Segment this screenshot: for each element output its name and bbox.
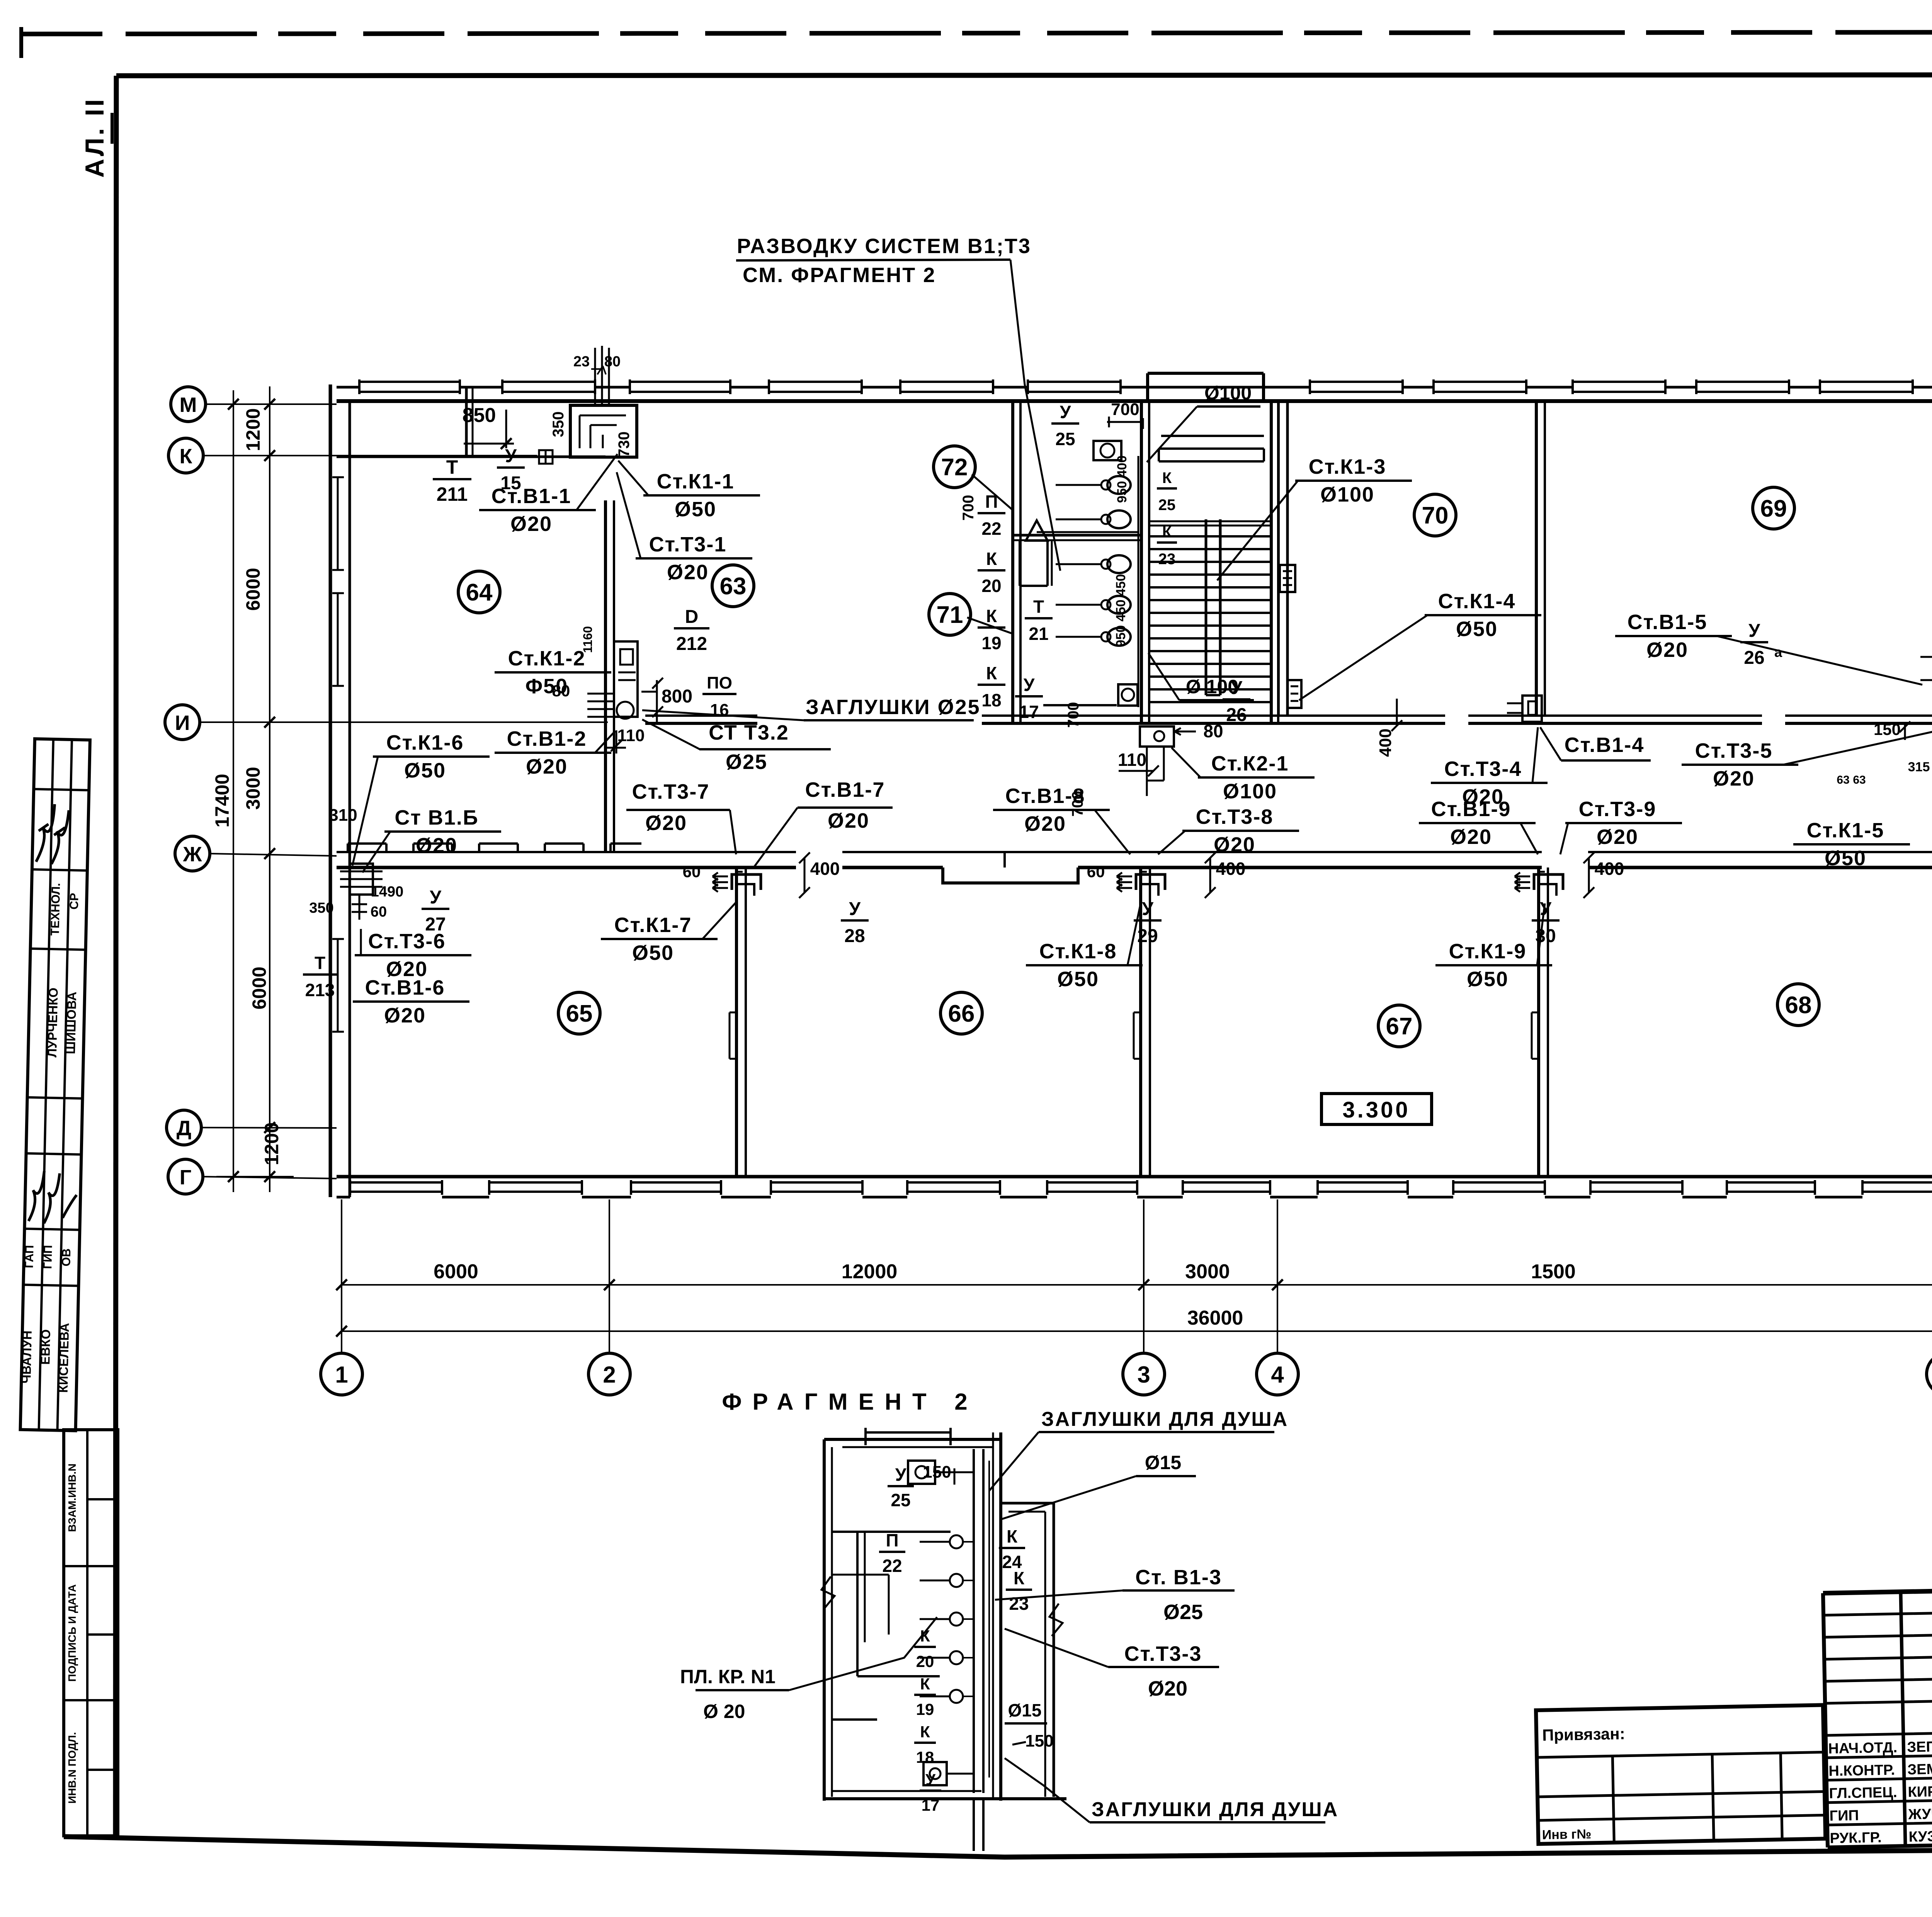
svg-text:Ø25: Ø25: [726, 750, 767, 774]
svg-text:Ø20: Ø20: [510, 512, 552, 536]
label Ст.К1-5: [1793, 819, 1910, 870]
fragment fraction У/25: [888, 1465, 914, 1510]
svg-text:Ø50: Ø50: [632, 941, 674, 964]
label Ст.К1-7: [601, 902, 736, 964]
svg-text:Ø50: Ø50: [1456, 617, 1498, 641]
svg-text:ЗАГЛУШКИ Ø25: ЗАГЛУШКИ Ø25: [806, 696, 981, 719]
svg-text:Ø20: Ø20: [526, 755, 568, 778]
plumbing node partition 64-63: [587, 641, 657, 719]
svg-text:4: 4: [1271, 1362, 1284, 1388]
toilet cabin: [1020, 541, 1052, 586]
svg-text:НАЧ.ОТД.: НАЧ.ОТД.: [1828, 1740, 1897, 1757]
svg-text:700: 700: [1065, 702, 1082, 728]
svg-text:950 450 450: 950 450 450: [1114, 574, 1128, 647]
svg-text:ЛУРЧЕНКО: ЛУРЧЕНКО: [45, 987, 61, 1057]
fragment label Ø15 bottom: [1005, 1700, 1054, 1750]
lower stamp strip: [64, 1430, 118, 1836]
svg-text:67: 67: [1386, 1013, 1413, 1040]
svg-text:Т: Т: [1033, 597, 1044, 617]
stamp signature squiggles upper: [36, 804, 69, 864]
dims near left node: [309, 884, 403, 920]
partition rooms 70-69: [1536, 402, 1545, 716]
fragment label Ø15 top: [1001, 1452, 1196, 1519]
partition rooms 66-67: [1134, 867, 1150, 1177]
svg-text:Ø25: Ø25: [1163, 1601, 1203, 1624]
fragment fraction К/20: [914, 1627, 936, 1670]
toilet partition 72-71: [1013, 535, 1141, 540]
fragment label Пл.кр.N1: [680, 1617, 937, 1722]
svg-text:400: 400: [1595, 859, 1624, 879]
svg-text:Ø20: Ø20: [1148, 1677, 1187, 1700]
label Ст.К1-1: [618, 461, 760, 521]
axis circle Д left: [167, 1110, 201, 1145]
svg-text:ГАП: ГАП: [22, 1245, 36, 1269]
toilet block left wall: [1013, 402, 1020, 723]
svg-text:25: 25: [1055, 429, 1075, 449]
svg-text:22: 22: [981, 519, 1001, 539]
svg-text:У: У: [505, 446, 517, 466]
label Ст.Т3-4: [1431, 727, 1548, 808]
svg-text:Ст.В1-4: Ст.В1-4: [1565, 733, 1645, 757]
svg-text:26: 26: [1226, 705, 1247, 725]
label Ст.В1-2: [495, 727, 615, 778]
svg-text:Ст.К1-5: Ст.К1-5: [1807, 819, 1884, 842]
svg-text:20: 20: [916, 1652, 934, 1670]
title block left grid: [1823, 1579, 1932, 1847]
svg-text:У: У: [1540, 899, 1552, 919]
svg-text:ПЛ. КР. N1: ПЛ. КР. N1: [680, 1666, 776, 1687]
svg-text:110: 110: [617, 726, 645, 745]
label Ст.В1-6: [353, 976, 469, 1027]
svg-text:У: У: [1060, 402, 1071, 422]
fraction Т/213: [303, 953, 337, 1000]
svg-text:150: 150: [1874, 720, 1901, 738]
paper top edge dashed line: [21, 27, 1932, 58]
svg-text:18: 18: [981, 690, 1001, 710]
svg-text:Ø20: Ø20: [1214, 833, 1255, 856]
svg-text:а: а: [1774, 644, 1782, 660]
svg-text:К: К: [920, 1675, 930, 1693]
svg-text:Т: Т: [446, 456, 458, 478]
fragment outer walls: [824, 1428, 1066, 1801]
svg-text:950 400: 950 400: [1115, 456, 1129, 503]
fraction К/23: [1157, 524, 1177, 568]
label Ст.К1-9: [1435, 903, 1552, 991]
stamp label ИНВ.N ПОДЛ.: [66, 1732, 78, 1803]
svg-text:6000: 6000: [434, 1260, 478, 1283]
svg-text:К: К: [920, 1723, 930, 1741]
left outer wall: [330, 384, 350, 1197]
svg-text:Ø20: Ø20: [1597, 825, 1638, 849]
svg-text:Ст.Т3-4: Ст.Т3-4: [1444, 757, 1522, 781]
svg-text:730: 730: [616, 432, 633, 458]
svg-text:Ø50: Ø50: [1825, 847, 1866, 870]
svg-text:110: 110: [1118, 750, 1146, 770]
svg-text:ПОДПИСЬ И ДАТА: ПОДПИСЬ И ДАТА: [66, 1584, 78, 1682]
svg-text:Ст.Т3-9: Ст.Т3-9: [1579, 798, 1656, 821]
stamp label СР: [67, 893, 81, 910]
Ж wall niches under room 64: [348, 844, 641, 852]
room circle 65: [558, 992, 600, 1034]
svg-text:400: 400: [810, 859, 840, 879]
axis line И thin: [207, 721, 608, 723]
partition rooms 67-68: [1532, 867, 1548, 1177]
svg-text:Ст.В1-5: Ст.В1-5: [1628, 611, 1708, 634]
svg-text:69: 69: [1760, 495, 1787, 522]
partition rooms 65-66: [730, 867, 746, 1177]
label Ст.Т3-9: [1560, 798, 1682, 854]
fragment fraction К/19: [914, 1675, 936, 1718]
svg-text:150: 150: [1025, 1732, 1053, 1750]
axis circle И left: [165, 705, 200, 740]
fraction У/15: [497, 446, 525, 493]
svg-text:КИСЕЛЕВА: КИСЕЛЕВА: [56, 1323, 72, 1393]
stamp label ОВ: [59, 1248, 73, 1266]
staircase right wall: [1271, 402, 1278, 723]
svg-text:Ø20: Ø20: [1462, 785, 1504, 808]
label Ст.В1-4: [1540, 727, 1651, 760]
plumbing node at 65-66: [713, 872, 761, 896]
svg-text:150: 150: [923, 1463, 951, 1482]
room circle 68: [1777, 984, 1819, 1026]
svg-text:60: 60: [683, 862, 701, 881]
svg-text:Ст.К1-7: Ст.К1-7: [614, 913, 692, 937]
left dimension chains: [216, 386, 294, 1192]
svg-text:ЧВАЛУН: ЧВАЛУН: [19, 1330, 34, 1384]
svg-text:36000: 36000: [1187, 1307, 1243, 1329]
dim 80 arrow: [1175, 721, 1223, 741]
svg-text:63: 63: [720, 573, 747, 600]
sheet label АЛ. II rotated top-left: [80, 97, 112, 178]
svg-text:16: 16: [710, 701, 729, 720]
axis circle 5 bottom: [1927, 1353, 1932, 1395]
svg-text:ОВ: ОВ: [59, 1248, 73, 1266]
svg-text:Ø20: Ø20: [828, 809, 869, 832]
svg-text:ЗАГЛУШКИ ДЛЯ ДУША: ЗАГЛУШКИ ДЛЯ ДУША: [1092, 1798, 1338, 1821]
fragment fraction К/23: [1006, 1568, 1032, 1614]
svg-text:У: У: [1142, 899, 1154, 919]
svg-text:ПО: ПО: [707, 674, 732, 692]
svg-text:Ст.Т3-6: Ст.Т3-6: [368, 930, 446, 953]
svg-text:19: 19: [981, 633, 1001, 653]
label Ст.К2-1: [1172, 748, 1315, 803]
fraction У/29: [1134, 899, 1162, 946]
fraction К/18: [978, 663, 1005, 710]
svg-text:Ø50: Ø50: [1057, 968, 1099, 991]
fraction У/17 wc: [1015, 675, 1043, 722]
svg-text:23: 23: [573, 354, 590, 370]
dim 400 rotated: [1376, 699, 1402, 757]
room 71 leader: [967, 617, 1013, 634]
svg-text:15: 15: [500, 473, 521, 493]
svg-text:18: 18: [916, 1748, 934, 1766]
toilet fixtures: [1026, 441, 1138, 707]
svg-text:211: 211: [437, 483, 468, 505]
fraction Т/211: [433, 456, 471, 505]
svg-text:3.300: 3.300: [1342, 1097, 1410, 1123]
svg-text:ИНВ.N ПОДЛ.: ИНВ.N ПОДЛ.: [66, 1732, 78, 1803]
corridor wall at axis Ж with recess: [337, 852, 1932, 883]
svg-text:Ст.Т3-3: Ст.Т3-3: [1124, 1642, 1202, 1665]
plumbing node left wall: [340, 864, 383, 920]
dim 110: [607, 726, 645, 754]
stamp label ВЗАМ.ИНВ.N: [66, 1463, 78, 1532]
room circle 69: [1753, 487, 1794, 529]
label СТ Т3.2: [642, 720, 831, 774]
svg-text:КИРНАЛОВА: КИРНАЛОВА: [1908, 1783, 1932, 1800]
bottom outer wall with windows: [337, 1177, 1932, 1197]
svg-text:80: 80: [604, 354, 621, 370]
svg-text:Ст В1.Б: Ст В1.Б: [395, 806, 478, 829]
label Заглушки Ø25: [642, 696, 981, 720]
svg-text:Ø100: Ø100: [1320, 483, 1374, 506]
dim 110 k2: [1118, 750, 1159, 776]
label Ст.Т3-6: [355, 929, 471, 981]
svg-text:D: D: [685, 607, 699, 627]
svg-text:ФРАГМЕНТ 2: ФРАГМЕНТ 2: [722, 1389, 978, 1415]
svg-text:Привязан:: Привязан:: [1542, 1725, 1625, 1744]
fragment fraction К/24: [999, 1526, 1025, 1572]
svg-text:Ø20: Ø20: [384, 1004, 426, 1027]
label Ст.К1-8: [1026, 903, 1143, 991]
label Ст В1.6: [362, 806, 501, 873]
left design stamp strip: [18, 739, 118, 1836]
svg-text:Г: Г: [180, 1166, 192, 1189]
inv number label: [1542, 1827, 1592, 1842]
svg-text:Ст.Т3-5: Ст.Т3-5: [1695, 739, 1773, 762]
svg-text:Ст.К1-9: Ст.К1-9: [1449, 940, 1527, 963]
svg-text:К: К: [1162, 469, 1172, 486]
level mark 3.300: [1321, 1094, 1432, 1124]
fraction ПО/16: [702, 674, 736, 720]
svg-text:Ст.К2-1: Ст.К2-1: [1211, 752, 1289, 775]
svg-text:Ст.Т3-1: Ст.Т3-1: [649, 533, 727, 556]
node В1-4 at 70-69: [1507, 696, 1542, 722]
stamp label ПОДПИСЬ И ДАТА: [66, 1584, 78, 1682]
fraction У/26а: [1740, 621, 1782, 668]
room circle 72: [934, 446, 975, 488]
svg-text:Ст.К1-6: Ст.К1-6: [386, 731, 464, 754]
label Ст.К1-4: [1299, 590, 1541, 700]
svg-text:Ж: Ж: [183, 843, 202, 866]
stamp label ГИП: [41, 1245, 54, 1269]
svg-text:Ø 100: Ø 100: [1186, 676, 1238, 697]
svg-text:Ст.К1-4: Ст.К1-4: [1438, 590, 1516, 613]
svg-text:РУК.ГР.: РУК.ГР.: [1830, 1829, 1882, 1846]
svg-text:700: 700: [960, 495, 977, 521]
vent symbol: [539, 450, 553, 464]
fraction К/20: [978, 549, 1005, 596]
svg-text:71: 71: [937, 602, 963, 628]
svg-text:212: 212: [676, 634, 707, 654]
room circle 64: [458, 571, 500, 613]
svg-text:Ø20: Ø20: [1450, 825, 1492, 849]
svg-text:60: 60: [1087, 862, 1105, 881]
dim 800: [652, 678, 692, 722]
label Ø100 top: [1147, 382, 1260, 462]
svg-text:3000: 3000: [1185, 1260, 1230, 1283]
fragment label Ст.В1-3: [995, 1566, 1235, 1624]
svg-text:Ст.В1-2: Ст.В1-2: [507, 727, 587, 750]
svg-text:350: 350: [550, 412, 567, 437]
axis circle 4 bottom: [1257, 1353, 1298, 1395]
svg-text:28: 28: [844, 926, 865, 946]
svg-text:ЖУРАВЛЕВА: ЖУРАВЛЕВА: [1908, 1805, 1932, 1823]
room circle 67: [1378, 1005, 1420, 1047]
fragment wc fixtures: [920, 1535, 974, 1703]
svg-text:80: 80: [1203, 721, 1223, 741]
staircase top bay: [1148, 373, 1264, 461]
svg-text:12000: 12000: [842, 1260, 898, 1283]
svg-text:У: У: [849, 899, 861, 919]
fragment dim 150: [923, 1463, 954, 1485]
privyazan block: [1536, 1705, 1825, 1844]
dim 700 wc top: [1107, 400, 1144, 429]
svg-text:ЕВКО: ЕВКО: [38, 1329, 53, 1365]
fraction У/28: [841, 899, 869, 946]
svg-text:РАЗВОДКУ СИСТЕМ В1;Т3: РАЗВОДКУ СИСТЕМ В1;Т3: [737, 235, 1031, 258]
axis circle Ж left: [175, 836, 210, 871]
fraction У/27: [422, 887, 449, 935]
stamp signatures mid: [29, 1171, 77, 1224]
svg-text:К: К: [986, 663, 997, 683]
svg-text:850: 850: [463, 404, 496, 427]
staircase treads and stringer: [1149, 519, 1271, 702]
svg-text:Ø20: Ø20: [1024, 812, 1066, 835]
label Ст.Т3-5: [1682, 727, 1932, 790]
label Ст.В1-1: [479, 454, 617, 536]
svg-text:25: 25: [1158, 497, 1176, 514]
node К2-1 below И: [1140, 726, 1174, 796]
fragment break marks: [821, 1577, 1063, 1636]
fragment corridor wall: [1001, 1503, 1054, 1797]
svg-text:1200: 1200: [242, 408, 264, 451]
svg-text:25: 25: [891, 1490, 910, 1510]
room 64 north inner wall: [337, 456, 605, 458]
fragment interior partitions: [832, 1532, 951, 1720]
svg-text:ГЛ.СПЕЦ.: ГЛ.СПЕЦ.: [1829, 1784, 1897, 1802]
svg-text:ВЗАМ.ИНВ.N: ВЗАМ.ИНВ.N: [66, 1463, 78, 1532]
svg-text:Ø50: Ø50: [404, 759, 446, 782]
dim 400 node1: [799, 852, 840, 898]
axis circle К left: [168, 438, 203, 473]
fraction D/212: [674, 607, 709, 654]
room circle 71: [929, 594, 971, 635]
svg-text:Ст.К1-3: Ст.К1-3: [1309, 455, 1386, 478]
svg-text:Д: Д: [177, 1117, 191, 1140]
svg-text:СТ Т3.2: СТ Т3.2: [709, 721, 789, 744]
svg-text:АЛ. II: АЛ. II: [80, 97, 109, 178]
note Разводку систем В1;Т3 см.фрагмент 2: [736, 235, 1060, 571]
label Ст.В1-7: [754, 778, 893, 867]
svg-text:1500: 1500: [1531, 1260, 1576, 1283]
axis circle 2 bottom: [588, 1353, 630, 1395]
fraction У/26: [1223, 678, 1250, 725]
svg-text:17: 17: [922, 1796, 940, 1814]
label Ø100 bottom: [1148, 653, 1254, 700]
svg-text:Ст. В1-3: Ст. В1-3: [1135, 1566, 1222, 1589]
fraction К/19: [978, 606, 1005, 653]
svg-text:400: 400: [1376, 728, 1395, 757]
svg-text:68: 68: [1785, 992, 1812, 1019]
svg-text:Ø20: Ø20: [1646, 638, 1688, 662]
svg-text:У: У: [1748, 621, 1760, 641]
svg-text:17: 17: [1019, 702, 1039, 722]
title block outer top line: [1823, 1579, 1932, 1593]
axis circle 1 bottom: [321, 1353, 362, 1395]
svg-text:Ø20: Ø20: [1713, 767, 1755, 790]
closet divider МК strip: [466, 386, 473, 457]
svg-text:СР: СР: [67, 893, 81, 910]
svg-text:72: 72: [941, 454, 968, 481]
svg-text:Ø100: Ø100: [1204, 382, 1252, 404]
fragment riser pipes: [974, 1449, 989, 1851]
fragment bottom unit: [923, 1762, 974, 1785]
room 70 left wall: [1279, 402, 1287, 716]
svg-text:У: У: [925, 1771, 936, 1789]
svg-text:65: 65: [566, 1000, 593, 1027]
fraction К/25: [1157, 469, 1177, 514]
axis circle 3 bottom: [1123, 1353, 1165, 1395]
svg-text:80: 80: [552, 682, 570, 700]
svg-text:63: 63: [1853, 774, 1866, 786]
svg-text:60: 60: [371, 904, 387, 920]
svg-text:К: К: [986, 549, 997, 569]
svg-text:Ст.Т3-7: Ст.Т3-7: [632, 780, 710, 803]
label Ст.В1-5: [1615, 611, 1922, 685]
fragment bottom label Заглушки для душа: [1005, 1758, 1338, 1822]
svg-text:Ø50: Ø50: [675, 498, 716, 521]
dim 23 80 risers: [573, 354, 621, 374]
privyazan label: [1542, 1725, 1625, 1744]
svg-text:Ø15: Ø15: [1145, 1452, 1182, 1473]
svg-text:310: 310: [329, 806, 357, 825]
left stamp outer box: [20, 739, 90, 1431]
floor plan: [207, 346, 1932, 1197]
room circle 66: [940, 992, 982, 1034]
room circle 63: [712, 565, 754, 607]
axis leader lines left: [200, 404, 537, 1179]
svg-text:700: 700: [1111, 400, 1139, 419]
svg-text:70: 70: [1422, 502, 1449, 529]
svg-text:Ст.В1-7: Ст.В1-7: [805, 778, 885, 801]
svg-text:20: 20: [981, 576, 1001, 596]
svg-text:ЗЕПРИНСКИЙ: ЗЕПРИНСКИЙ: [1907, 1736, 1932, 1755]
svg-text:2: 2: [603, 1362, 616, 1388]
axis circle М left: [171, 387, 206, 422]
svg-text:6000: 6000: [242, 568, 264, 611]
stamp name ЕВКО: [38, 1329, 53, 1365]
fragment label Ст.Т3-3: [1005, 1629, 1219, 1700]
svg-text:К: К: [180, 445, 193, 468]
svg-text:315: 315: [1908, 760, 1930, 774]
svg-text:Ø100: Ø100: [1223, 780, 1277, 803]
svg-text:63: 63: [1837, 774, 1849, 786]
svg-text:1200: 1200: [261, 1122, 282, 1165]
svg-text:СМ. ФРАГМЕНТ 2: СМ. ФРАГМЕНТ 2: [743, 264, 936, 287]
stamp label ТЕХНОЛ: [48, 883, 63, 936]
svg-text:ШИШОВА: ШИШОВА: [63, 992, 79, 1054]
svg-text:ТЕХНОЛ.: ТЕХНОЛ.: [48, 883, 63, 936]
svg-text:К: К: [1162, 524, 1172, 541]
svg-text:ЗЕМСКОВА: ЗЕМСКОВА: [1907, 1760, 1932, 1778]
fraction У/30: [1532, 899, 1560, 946]
label Ст.В1-8: [993, 784, 1130, 854]
stamp name ЧВАЛУН: [19, 1330, 34, 1384]
svg-text:Ст.К1-1: Ст.К1-1: [657, 470, 735, 493]
label Ст.Т3-7: [626, 780, 736, 854]
svg-text:23: 23: [1158, 551, 1176, 568]
